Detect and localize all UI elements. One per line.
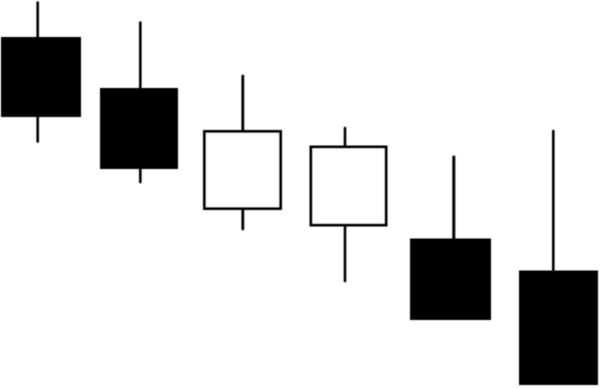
candle 2 body (solid black) xyxy=(100,88,178,169)
candle 5 wick xyxy=(452,157,455,240)
candle 3 wick xyxy=(241,76,244,229)
candle 1 body (solid black) xyxy=(1,37,81,117)
candle 3 body (hollow white) xyxy=(205,132,281,209)
candle 4 wick xyxy=(344,128,347,281)
candle 2 wick xyxy=(139,23,142,183)
candle 1 wick xyxy=(36,3,39,142)
candle 6 body (solid black) xyxy=(519,271,598,386)
candle 6 wick xyxy=(552,131,555,272)
candle 4 body (hollow white) xyxy=(311,147,386,225)
candle 5 body (solid black) xyxy=(410,239,491,321)
